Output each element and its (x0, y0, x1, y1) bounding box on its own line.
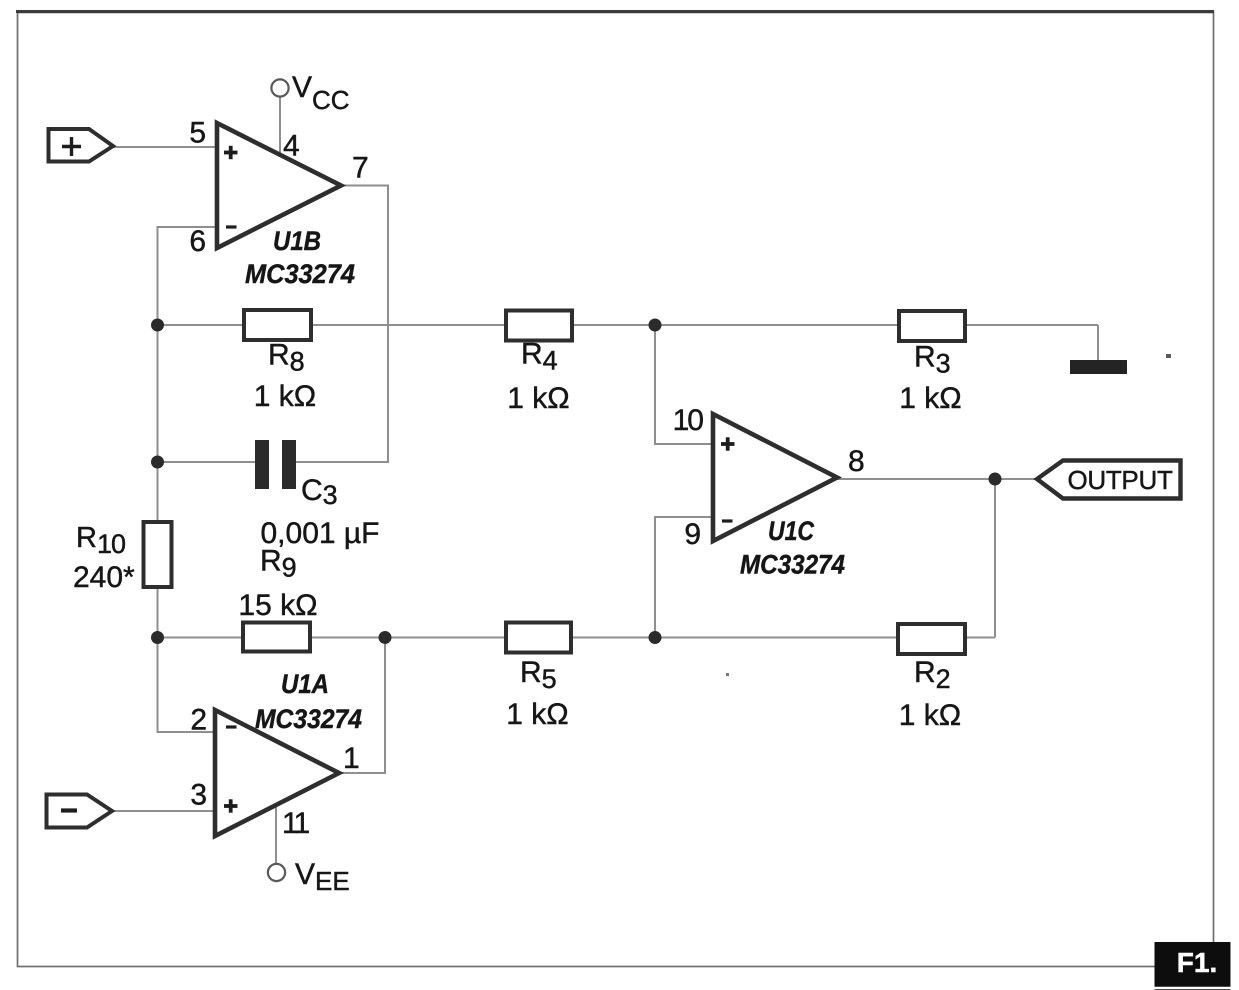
wire: VCC terminal down to U1B pin 4 (279, 96, 281, 156)
input connector IN- (47, 795, 113, 828)
wire: U1C pin 9 left and down to bottom rail (655, 517, 713, 638)
plus sign in IN+ (62, 137, 81, 156)
node B: left rail / C3 junction (151, 456, 164, 469)
svg-text:MC33274: MC33274 (740, 550, 845, 580)
node E: R4-R3 / pin10 junction (649, 319, 662, 332)
wire: node to C3 left plate (158, 461, 257, 463)
VCC terminal (271, 79, 288, 96)
svg-text:MC33274: MC33274 (255, 704, 362, 734)
svg-text:10: 10 (673, 404, 704, 437)
svg-text:4: 4 (283, 130, 300, 163)
wire: U1A pin 1 output right and up to bottom rail (337, 638, 385, 774)
node G: output junction (989, 473, 1002, 486)
wire: U1A pin 11 down to VEE terminal (275, 803, 277, 864)
resistor R9 (243, 623, 310, 652)
minus sign in U1B (226, 225, 237, 228)
svg-text:1 kΩ: 1 kΩ (899, 382, 961, 415)
svg-text:11: 11 (282, 807, 309, 840)
VEE terminal (268, 864, 285, 881)
wire: C3 right plate to pin-7 drop (295, 461, 389, 463)
wire: top horizontal rail through R8 R4 R3 (158, 324, 1099, 326)
svg-text:U1C: U1C (768, 516, 814, 546)
wire: bottom horizontal rail through R9 R5 R2 (158, 637, 996, 639)
svg-text:1 kΩ: 1 kΩ (507, 382, 569, 415)
svg-text:0,001 µF: 0,001 µF (260, 517, 379, 550)
svg-text:MC33274: MC33274 (245, 259, 355, 289)
node C: left rail / R9 junction (151, 631, 164, 644)
svg-text:2: 2 (190, 704, 207, 737)
resistor R3 (899, 311, 965, 341)
svg-text:8: 8 (848, 445, 865, 478)
minus sign in U1C (722, 519, 733, 522)
op-amp U1C (713, 414, 837, 541)
svg-text:1: 1 (343, 742, 360, 775)
plus sign in U1C (721, 437, 735, 450)
figure label F1 (1155, 942, 1231, 990)
svg-text:1 kΩ: 1 kΩ (254, 380, 316, 413)
node A: left rail / R8 junction (151, 319, 164, 332)
plus sign in U1A (224, 799, 238, 812)
node D: U1A output / R9-R5 junction (379, 631, 392, 644)
wire: U1C pin 8 output to OUTPUT connector (835, 478, 1038, 480)
svg-text:3: 3 (190, 779, 207, 812)
svg-text:240*: 240* (73, 561, 135, 594)
wire: R2 right up to output node (994, 479, 996, 638)
resistor R8 (244, 310, 311, 340)
svg-text:1 kΩ: 1 kΩ (899, 699, 961, 732)
svg-text:9: 9 (684, 518, 701, 551)
svg-text:5: 5 (189, 117, 206, 150)
svg-text:U1B: U1B (273, 226, 321, 256)
capacitor C3 plates (255, 440, 296, 489)
wire: U1B pin 6 feedback left and down left rail to U1A pin 2 (158, 227, 218, 732)
wire: R3 right down to ground (1097, 325, 1099, 361)
wire: IN- to U1A pin 3 (112, 810, 215, 812)
ground bar (1070, 360, 1127, 374)
svg-text:15 kΩ: 15 kΩ (238, 589, 317, 622)
resistor R10 (vertical) (144, 522, 172, 587)
svg-text:C3: C3 (301, 474, 338, 510)
op-amp U1B (217, 123, 341, 248)
svg-text:U1A: U1A (281, 669, 329, 699)
input connector IN+ (49, 129, 114, 162)
resistor R5 (506, 623, 571, 653)
wire: top rail node down to U1C pin 10 (655, 325, 713, 444)
node F: R5-R2 / pin9 junction (649, 631, 662, 644)
minus sign in IN- (61, 808, 77, 812)
svg-text:F1.: F1. (1177, 947, 1217, 978)
svg-text:6: 6 (189, 225, 206, 258)
minus sign in U1A (226, 725, 237, 728)
resistor R2 (898, 624, 965, 654)
op-amp U1A (215, 710, 339, 836)
svg-text:7: 7 (352, 152, 369, 185)
plus sign in U1B (224, 146, 238, 159)
svg-text:OUTPUT: OUTPUT (1067, 465, 1173, 495)
wire: IN+ to U1B pin 5 (113, 146, 217, 148)
OUTPUT connector (1037, 461, 1181, 499)
resistor R4 (506, 311, 572, 341)
svg-text:1 kΩ: 1 kΩ (506, 698, 568, 731)
wire: U1B pin 7 output right and down to C3 (339, 186, 388, 463)
